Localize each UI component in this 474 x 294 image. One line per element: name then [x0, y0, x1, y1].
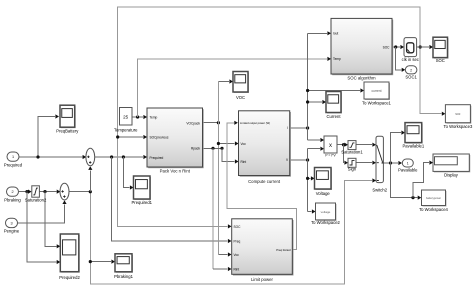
svg-text:To Workspace2: To Workspace2	[311, 220, 340, 225]
svg-text:Pbraking1: Pbraking1	[114, 274, 134, 279]
svg-text:P = I*V: P = I*V	[325, 154, 336, 158]
svg-text:Pavailable1: Pavailable1	[403, 144, 425, 149]
svg-text:SOCprevious: SOCprevious	[150, 135, 169, 139]
svg-text:PreqBattery: PreqBattery	[56, 129, 79, 134]
svg-text:Pavailable: Pavailable	[398, 167, 418, 172]
svg-text:current: current	[372, 89, 382, 93]
svg-text:I: I	[287, 126, 288, 130]
svg-text:Temp: Temp	[150, 115, 158, 119]
svg-text:Pack Voc n Rint: Pack Voc n Rint	[160, 169, 191, 174]
svg-text:Saturation2: Saturation2	[25, 198, 47, 203]
svg-text:3: 3	[10, 221, 12, 225]
svg-text:SOC algorithm: SOC algorithm	[347, 76, 376, 81]
svg-text:clk in sec: clk in sec	[402, 57, 419, 62]
svg-text:Prequired: Prequired	[4, 162, 23, 167]
svg-text:Saturation1: Saturation1	[341, 150, 363, 155]
svg-text:25: 25	[123, 115, 129, 120]
svg-text:Pengine: Pengine	[4, 229, 20, 234]
svg-text:To Workspace1: To Workspace1	[362, 101, 391, 106]
svg-text:2: 2	[11, 190, 13, 194]
svg-text:Rpack: Rpack	[191, 147, 200, 151]
svg-text:Prequired2: Prequired2	[59, 275, 80, 280]
svg-text:Display: Display	[444, 172, 459, 177]
svg-text:batterypower: batterypower	[426, 196, 441, 200]
svg-text:soc: soc	[455, 112, 460, 116]
svg-text:Iout: Iout	[333, 32, 338, 36]
svg-text:1: 1	[407, 162, 409, 166]
svg-text:Switch2: Switch2	[372, 188, 387, 193]
svg-text:To Workspace3: To Workspace3	[444, 124, 473, 129]
svg-text:Preq: Preq	[234, 239, 241, 243]
svg-text:VOCpack: VOCpack	[186, 121, 200, 125]
svg-text:Compute current: Compute current	[248, 179, 281, 184]
svg-text:SOC: SOC	[234, 225, 242, 229]
svg-text:Temperature: Temperature	[114, 127, 138, 132]
svg-text:Limit power: Limit power	[251, 277, 274, 282]
svg-text:Preq limited: Preq limited	[276, 248, 291, 252]
svg-text:voltage: voltage	[321, 210, 331, 214]
svg-text:x: x	[329, 143, 332, 149]
svg-text:1: 1	[12, 155, 14, 159]
svg-text:VOC: VOC	[236, 95, 245, 100]
svg-text:Temp: Temp	[333, 57, 341, 61]
svg-text:To Workspace4: To Workspace4	[419, 207, 448, 212]
svg-text:Sign: Sign	[348, 166, 357, 171]
svg-text:Pbraking: Pbraking	[4, 197, 21, 202]
svg-text:SOC: SOC	[436, 58, 445, 63]
svg-text:Rint: Rint	[241, 160, 247, 164]
svg-text:2: 2	[410, 68, 412, 72]
svg-text:Voc: Voc	[234, 253, 240, 257]
svg-text:Limited output power (W): Limited output power (W)	[240, 121, 270, 125]
svg-text:SOC1: SOC1	[405, 75, 417, 80]
svg-text:Current: Current	[327, 114, 342, 119]
svg-text:Prequired1: Prequired1	[132, 200, 153, 205]
svg-text:SOC: SOC	[383, 45, 391, 49]
svg-text:Voltage: Voltage	[316, 191, 331, 196]
svg-text:Rint: Rint	[234, 267, 240, 271]
svg-text:Voc: Voc	[241, 142, 247, 146]
svg-text:Prequired: Prequired	[150, 156, 164, 160]
